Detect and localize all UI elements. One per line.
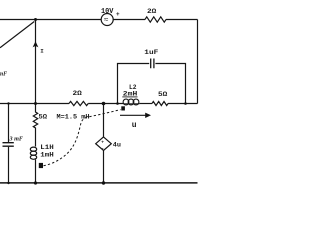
svg-text:5Ω: 5Ω bbox=[39, 113, 48, 120]
node bottom x103 bbox=[102, 181, 105, 184]
capacitor C2 plates bbox=[151, 59, 154, 69]
svg-text:1mH: 1mH bbox=[40, 152, 54, 159]
node top switch junction bbox=[34, 18, 37, 21]
resistor R2 2ohm (middle) bbox=[69, 101, 88, 105]
arrow u shaft bbox=[120, 114, 147, 116]
node middle x185 bbox=[184, 102, 187, 105]
svg-text:+: + bbox=[101, 140, 104, 145]
svg-text:2Ω: 2Ω bbox=[73, 90, 82, 97]
wire middle rail segment 2 bbox=[88, 103, 123, 105]
node middle x8.5 bbox=[7, 102, 9, 104]
mutual inductance M dashed coupling line bbox=[44, 110, 121, 166]
node bottom x35 bbox=[34, 181, 37, 184]
inductor L2 coil bbox=[124, 103, 140, 105]
wire right rail bbox=[197, 20, 199, 104]
wire L1 bottom lead bbox=[35, 159, 37, 183]
arrowhead u bbox=[145, 113, 151, 118]
switch S1 blade (diagonal) bbox=[0, 22, 34, 48]
svg-text:1uF: 1uF bbox=[144, 49, 158, 56]
capacitor C2 1uF branch left wire bbox=[118, 64, 150, 104]
svg-text:L1H: L1H bbox=[40, 144, 54, 151]
svg-text:≈: ≈ bbox=[104, 16, 109, 25]
resistor R4 5ohm (left vertical) bbox=[33, 104, 37, 147]
resistor R3 5ohm (middle) bbox=[152, 102, 168, 106]
svg-text:2mH: 2mH bbox=[123, 90, 138, 97]
svg-text:I: I bbox=[40, 47, 44, 54]
node bottom x8.5 bbox=[7, 182, 9, 184]
node middle x103 bbox=[102, 102, 106, 106]
wire middle rail segment 1 bbox=[0, 103, 69, 105]
wire top rail middle segment bbox=[113, 19, 145, 21]
arrowhead current I bbox=[33, 41, 39, 47]
controlled source U1 top lead bbox=[103, 104, 105, 137]
wire top rail left segment bbox=[0, 19, 102, 21]
coupling dot square L2 bbox=[121, 106, 125, 110]
wire vertical branch x=35 bbox=[35, 20, 37, 104]
svg-text:mF: mF bbox=[0, 72, 7, 78]
controlled source U1 bottom lead bbox=[103, 151, 105, 184]
svg-text:M=1.5 mH: M=1.5 mH bbox=[57, 113, 90, 120]
coupling dot square L1 bbox=[39, 163, 43, 168]
svg-text:3 mF: 3 mF bbox=[8, 136, 23, 142]
capacitor C1 bottom lead bbox=[8, 147, 10, 183]
node middle x117 bbox=[116, 102, 119, 105]
inductor L1 coil bbox=[30, 147, 36, 151]
capacitor C2 1uF branch right wire bbox=[155, 64, 185, 104]
svg-text:4u: 4u bbox=[113, 142, 121, 149]
svg-text:2Ω: 2Ω bbox=[147, 8, 156, 15]
underline of 2mH bbox=[122, 96, 137, 98]
svg-text:5Ω: 5Ω bbox=[158, 91, 167, 98]
wire middle rail segment 3 bbox=[139, 103, 152, 105]
node middle x35 bbox=[34, 102, 37, 105]
capacitor C1 plates bbox=[3, 143, 14, 147]
wire bottom rail bbox=[0, 182, 198, 184]
wire top rail right segment bbox=[166, 19, 198, 21]
controlled source U1 diamond bbox=[96, 137, 112, 151]
svg-text:u: u bbox=[132, 121, 137, 130]
wire middle rail segment 4 bbox=[168, 103, 198, 105]
svg-text:-: - bbox=[101, 147, 104, 152]
svg-text:10V: 10V bbox=[101, 8, 114, 16]
source V1 10V (AC circle) bbox=[101, 14, 113, 26]
svg-text:+: + bbox=[116, 11, 120, 18]
capacitor C1 3mF branch top lead bbox=[8, 104, 10, 143]
resistor R1 2ohm (top) bbox=[145, 17, 166, 22]
